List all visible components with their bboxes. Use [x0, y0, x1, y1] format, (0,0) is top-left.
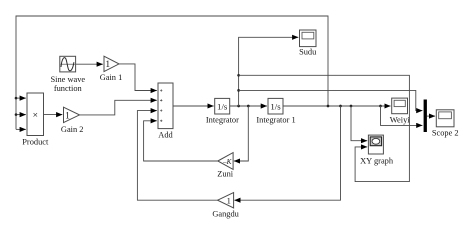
svg-text:1/s: 1/s [270, 101, 281, 111]
junction position to Gangdu [339, 105, 342, 108]
svg-text:XY graph: XY graph [360, 156, 394, 165]
block Sine wave function [50, 56, 85, 93]
junction velocity riser [237, 105, 240, 108]
wire position down to XY graph input 1 [351, 106, 367, 141]
block Add [158, 83, 174, 140]
block Gain 1 [100, 56, 123, 82]
junction velocity branch 1 [237, 74, 240, 77]
wire velocity branch 1 to XY graph input 2 (long U route) [239, 75, 410, 181]
svg-text:Gangdu: Gangdu [212, 210, 239, 219]
wire Gain 2 to Add input 2 [80, 100, 157, 115]
junction position to Mux input 2 [379, 105, 382, 108]
svg-text:Gain 1: Gain 1 [100, 73, 123, 82]
wire Mux to Scope 2 [427, 115, 435, 117]
wire position down to Gangdu input [234, 106, 340, 200]
wire product input stub 1 [16, 97, 26, 99]
junction Zuni drop [247, 105, 250, 108]
svg-text:Weiyi: Weiyi [390, 115, 410, 124]
svg-text:1: 1 [105, 60, 110, 70]
junction position to top feedback [327, 105, 330, 108]
block Product [22, 93, 49, 146]
block Gangdu gain (left-pointing) [212, 193, 239, 219]
wire Integrator 1 to Weiyi (position line) [283, 105, 391, 107]
wire product input stub 2 [16, 114, 26, 116]
wire Product to Gain 2 [44, 114, 63, 116]
wire position feedback top: from node P up over the top to Product inputs [16, 16, 328, 129]
wire Gangdu output to Add input 3 [137, 111, 217, 201]
wire velocity riser up to Sudu [239, 37, 299, 106]
svg-text:function: function [54, 84, 83, 93]
wire position drop to Mux input 2 [381, 106, 423, 125]
wire Integrator to Integrator 1 [230, 105, 267, 107]
svg-text:Gain 2: Gain 2 [61, 125, 84, 134]
svg-text:Zuni: Zuni [217, 169, 233, 178]
wire Zuni output to Add input 4 [144, 121, 218, 161]
svg-text:×: × [33, 111, 38, 121]
block Mux [424, 100, 427, 133]
wire product input stub 3 [16, 128, 26, 130]
svg-text:–K: –K [222, 158, 233, 166]
block Integrator 1 [256, 98, 295, 124]
junction velocity branch 2 [237, 89, 240, 92]
wire Sine wave function to Gain 1 [76, 63, 103, 65]
svg-text:Integrator: Integrator [206, 116, 239, 125]
block Sudu scope [299, 30, 317, 57]
wire Add to Integrator [173, 105, 214, 107]
svg-text:1/s: 1/s [217, 101, 228, 111]
svg-text:Scope 2: Scope 2 [432, 128, 459, 137]
svg-text:Sudu: Sudu [299, 48, 317, 57]
svg-text:1: 1 [65, 111, 70, 121]
svg-text:Sine wave: Sine wave [50, 75, 85, 84]
junction product stub 1 [15, 97, 18, 100]
wire Gain 1 to Add input 1 [119, 64, 157, 91]
svg-text:1: 1 [227, 196, 231, 206]
junction position to XY input 1 [350, 105, 353, 108]
svg-text:Add: Add [158, 131, 173, 140]
wire Zuni feed: drop from main line down and left into Zuni input [234, 106, 248, 161]
svg-text:Product: Product [22, 137, 49, 146]
junction product stub 2 [15, 113, 18, 116]
block Scope 2 [432, 110, 459, 138]
block Integrator [206, 98, 239, 124]
svg-text:Integrator 1: Integrator 1 [256, 116, 295, 125]
wire velocity branch 2 to Mux input 1 [239, 90, 423, 110]
block Zuni gain (left-pointing) [217, 153, 233, 179]
block Weiyi scope [390, 98, 410, 124]
block Gain 2 [61, 107, 84, 134]
block XY graph [360, 135, 394, 165]
